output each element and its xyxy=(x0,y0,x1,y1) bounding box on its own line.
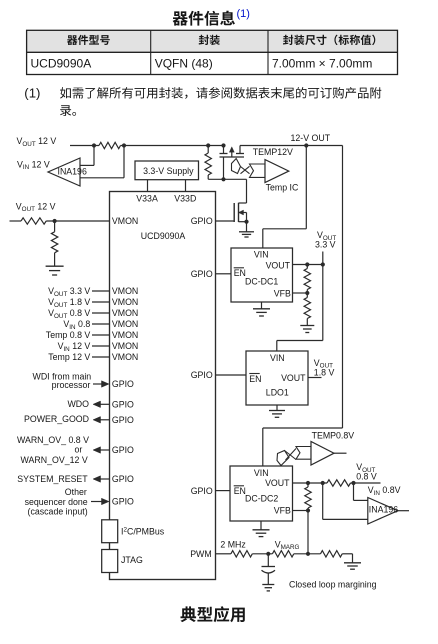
svg-text:GPIO: GPIO xyxy=(191,269,213,279)
svg-text:GPIO: GPIO xyxy=(191,486,213,496)
svg-text:VMON: VMON xyxy=(112,330,138,340)
svg-text:GPIO: GPIO xyxy=(112,415,134,425)
svg-text:(cascade input): (cascade input) xyxy=(28,507,88,517)
svg-text:VOUT: VOUT xyxy=(266,261,291,271)
svg-text:SYSTEM_RESET: SYSTEM_RESET xyxy=(17,474,88,484)
svg-text:WARN_OV_ 0.8 V: WARN_OV_ 0.8 V xyxy=(17,435,89,445)
svg-text:VMARG​: VMARG​ xyxy=(275,539,300,551)
svg-text:VMON: VMON xyxy=(112,216,138,226)
svg-text:VQFN (48): VQFN (48) xyxy=(155,56,213,70)
svg-text:GPIO: GPIO xyxy=(112,400,134,410)
svg-text:or: or xyxy=(74,445,82,455)
svg-text:UCD9090A: UCD9090A xyxy=(31,56,92,70)
svg-text:EN: EN xyxy=(249,374,261,384)
svg-text:WARN_OV_12 V: WARN_OV_12 V xyxy=(21,455,88,465)
svg-text:VMON: VMON xyxy=(112,286,138,296)
svg-text:POWER_GOOD: POWER_GOOD xyxy=(24,414,89,424)
svg-text:Temp 0.8 V: Temp 0.8 V xyxy=(46,330,91,340)
svg-text:VIN​ 12 V: VIN​ 12 V xyxy=(17,159,50,171)
svg-text:VFB: VFB xyxy=(274,505,291,515)
svg-text:VIN​ 0.8V: VIN​ 0.8V xyxy=(368,485,401,497)
svg-text:7.00mm × 7.00mm: 7.00mm × 7.00mm xyxy=(272,56,372,70)
svg-text:TEMP0.8V: TEMP0.8V xyxy=(312,431,355,441)
svg-text:12-V OUT: 12-V OUT xyxy=(291,133,331,143)
svg-text:INA196: INA196 xyxy=(369,505,398,515)
svg-text:DC-DC2: DC-DC2 xyxy=(245,494,278,504)
svg-text:VOUT: VOUT xyxy=(265,478,290,488)
svg-text:VOUT​ 12 V: VOUT​ 12 V xyxy=(17,136,57,148)
svg-text:PWM: PWM xyxy=(190,549,212,559)
svg-text:VOUT: VOUT xyxy=(281,373,306,383)
svg-text:Other: Other xyxy=(65,487,87,497)
svg-text:INA196: INA196 xyxy=(58,167,87,177)
svg-text:GPIO: GPIO xyxy=(112,474,134,484)
svg-text:GPIO: GPIO xyxy=(112,379,134,389)
svg-text:VMON: VMON xyxy=(112,308,138,318)
svg-text:processor: processor xyxy=(52,380,91,390)
svg-text:VOUT​ 12 V: VOUT​ 12 V xyxy=(16,201,56,213)
svg-text:(1): (1) xyxy=(237,8,250,20)
svg-text:DC-DC1: DC-DC1 xyxy=(245,276,278,286)
svg-text:0.8 V: 0.8 V xyxy=(356,472,377,482)
svg-text:V33D: V33D xyxy=(174,194,196,204)
svg-text:sequencer done: sequencer done xyxy=(25,497,88,507)
svg-text:(1): (1) xyxy=(24,86,40,101)
svg-text:WDO: WDO xyxy=(68,399,90,409)
svg-text:I2C/PMBus: I2C/PMBus xyxy=(121,526,165,536)
svg-text:VMON: VMON xyxy=(112,319,138,329)
svg-text:V33A: V33A xyxy=(136,194,158,204)
svg-text:Closed loop margining: Closed loop margining xyxy=(289,580,377,590)
svg-text:VFB: VFB xyxy=(274,288,291,298)
svg-text:VMON: VMON xyxy=(112,341,138,351)
svg-text:VMON: VMON xyxy=(112,297,138,307)
svg-text:VMON: VMON xyxy=(112,352,138,362)
svg-text:GPIO: GPIO xyxy=(191,216,213,226)
svg-text:UCD9090A: UCD9090A xyxy=(141,231,186,241)
svg-text:JTAG: JTAG xyxy=(121,555,143,565)
svg-text:Temp IC: Temp IC xyxy=(266,182,299,192)
svg-text:GPIO: GPIO xyxy=(112,445,134,455)
svg-text:3.3-V Supply: 3.3-V Supply xyxy=(143,166,194,176)
svg-text:Temp 12 V: Temp 12 V xyxy=(48,352,90,362)
svg-text:3.3 V: 3.3 V xyxy=(315,240,336,250)
svg-text:1.8 V: 1.8 V xyxy=(314,368,335,378)
svg-text:2 MHz: 2 MHz xyxy=(220,539,245,549)
svg-text:VIN: VIN xyxy=(270,353,285,363)
svg-text:LDO1: LDO1 xyxy=(266,388,289,398)
svg-text:VIN: VIN xyxy=(254,468,269,478)
svg-text:VIN: VIN xyxy=(254,249,269,259)
svg-text:GPIO: GPIO xyxy=(191,370,213,380)
svg-text:TEMP12V: TEMP12V xyxy=(253,147,293,157)
svg-text:GPIO: GPIO xyxy=(112,497,134,507)
